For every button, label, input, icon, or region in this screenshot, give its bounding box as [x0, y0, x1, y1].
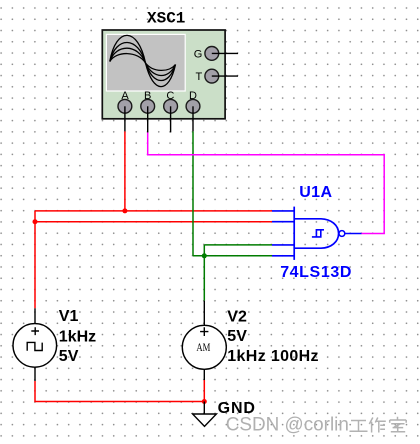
- svg-text:AM: AM: [196, 340, 210, 354]
- gate U1A input bus: [293, 207, 295, 260]
- svg-text:1kHz: 1kHz: [59, 329, 96, 346]
- pin V1 top stub: [34, 308, 36, 323]
- svg-text:74LS13D: 74LS13D: [280, 264, 352, 281]
- wire scope channel A red: [124, 131, 126, 211]
- junction ground node: [202, 399, 207, 404]
- svg-text:G: G: [194, 48, 203, 60]
- V1 plus sign: [31, 327, 39, 335]
- junction pin2 wire on V1 riser: [33, 219, 38, 224]
- svg-text:A: A: [121, 90, 129, 102]
- watermark glyph shi: [390, 417, 407, 432]
- terminal G: [205, 47, 219, 61]
- pin V2 top stub: [203, 301, 205, 326]
- V2 plus sign: [200, 327, 208, 336]
- watermark glyph gong: [350, 421, 368, 432]
- pin D stub: [192, 106, 194, 131]
- wire V2+ green: [203, 256, 205, 301]
- gate schmitt symbol: [312, 230, 324, 237]
- V1 square wave icon: [27, 342, 42, 350]
- svg-text:XSC1: XSC1: [147, 10, 185, 28]
- oscilloscope screen: [106, 34, 186, 92]
- pin V2 bottom stub: [203, 369, 205, 380]
- source V2 circle: [182, 325, 226, 369]
- pin 1 stub: [272, 210, 294, 212]
- wire scope channel B magenta to U1A output: [148, 132, 385, 233]
- wire green riser to pin3: [203, 245, 205, 256]
- pin B stub: [147, 106, 149, 132]
- ground symbol: [193, 414, 217, 426]
- wire green to U1A pin4: [193, 255, 272, 257]
- terminal A: [118, 99, 132, 113]
- terminal D: [186, 99, 200, 113]
- watermark glyph zuo: [369, 418, 386, 433]
- pin G line: [212, 52, 238, 54]
- svg-text:D: D: [189, 90, 197, 102]
- pin 3 stub: [272, 244, 294, 246]
- gate U1A body: [294, 219, 338, 248]
- gate output pin: [345, 233, 362, 235]
- svg-text:V2: V2: [227, 308, 247, 325]
- svg-text:T: T: [196, 71, 203, 83]
- oscilloscope waveform icon: [110, 35, 176, 86]
- wire V2- to ground red: [203, 380, 205, 402]
- pin C stub: [170, 106, 172, 132]
- svg-text:C: C: [166, 90, 174, 102]
- junction scope-A / pin1 wire: [122, 208, 127, 213]
- svg-text:CSDN @corlin: CSDN @corlin: [226, 414, 349, 435]
- svg-text:5V: 5V: [227, 328, 247, 345]
- source V1 circle: [13, 324, 57, 368]
- wire V1- to ground red: [35, 381, 204, 402]
- svg-text:U1A: U1A: [299, 184, 332, 201]
- terminal B: [141, 99, 155, 113]
- terminal C: [164, 99, 178, 113]
- wire scope channel D green: [192, 131, 194, 256]
- svg-text:B: B: [144, 90, 151, 102]
- ground pin stub: [203, 402, 205, 415]
- wire red to U1A pin2: [35, 221, 272, 223]
- svg-text:1kHz 100Hz: 1kHz 100Hz: [227, 348, 319, 365]
- gate output bubble: [339, 231, 345, 237]
- junction V2 node green: [202, 253, 207, 258]
- svg-text:V1: V1: [59, 308, 79, 325]
- terminal T: [205, 69, 219, 83]
- wire V1+ vertical red: [34, 211, 36, 308]
- oscilloscope XSC1 body: [102, 30, 225, 119]
- pin 4 stub: [272, 255, 294, 257]
- pin A stub: [124, 106, 126, 131]
- pin T line: [212, 75, 238, 77]
- wire green to U1A pin3: [204, 244, 272, 246]
- svg-text:5V: 5V: [59, 348, 79, 365]
- wire red to U1A pin1: [35, 210, 272, 212]
- pin 2 stub: [272, 221, 294, 223]
- pin V1 bottom stub: [34, 367, 36, 381]
